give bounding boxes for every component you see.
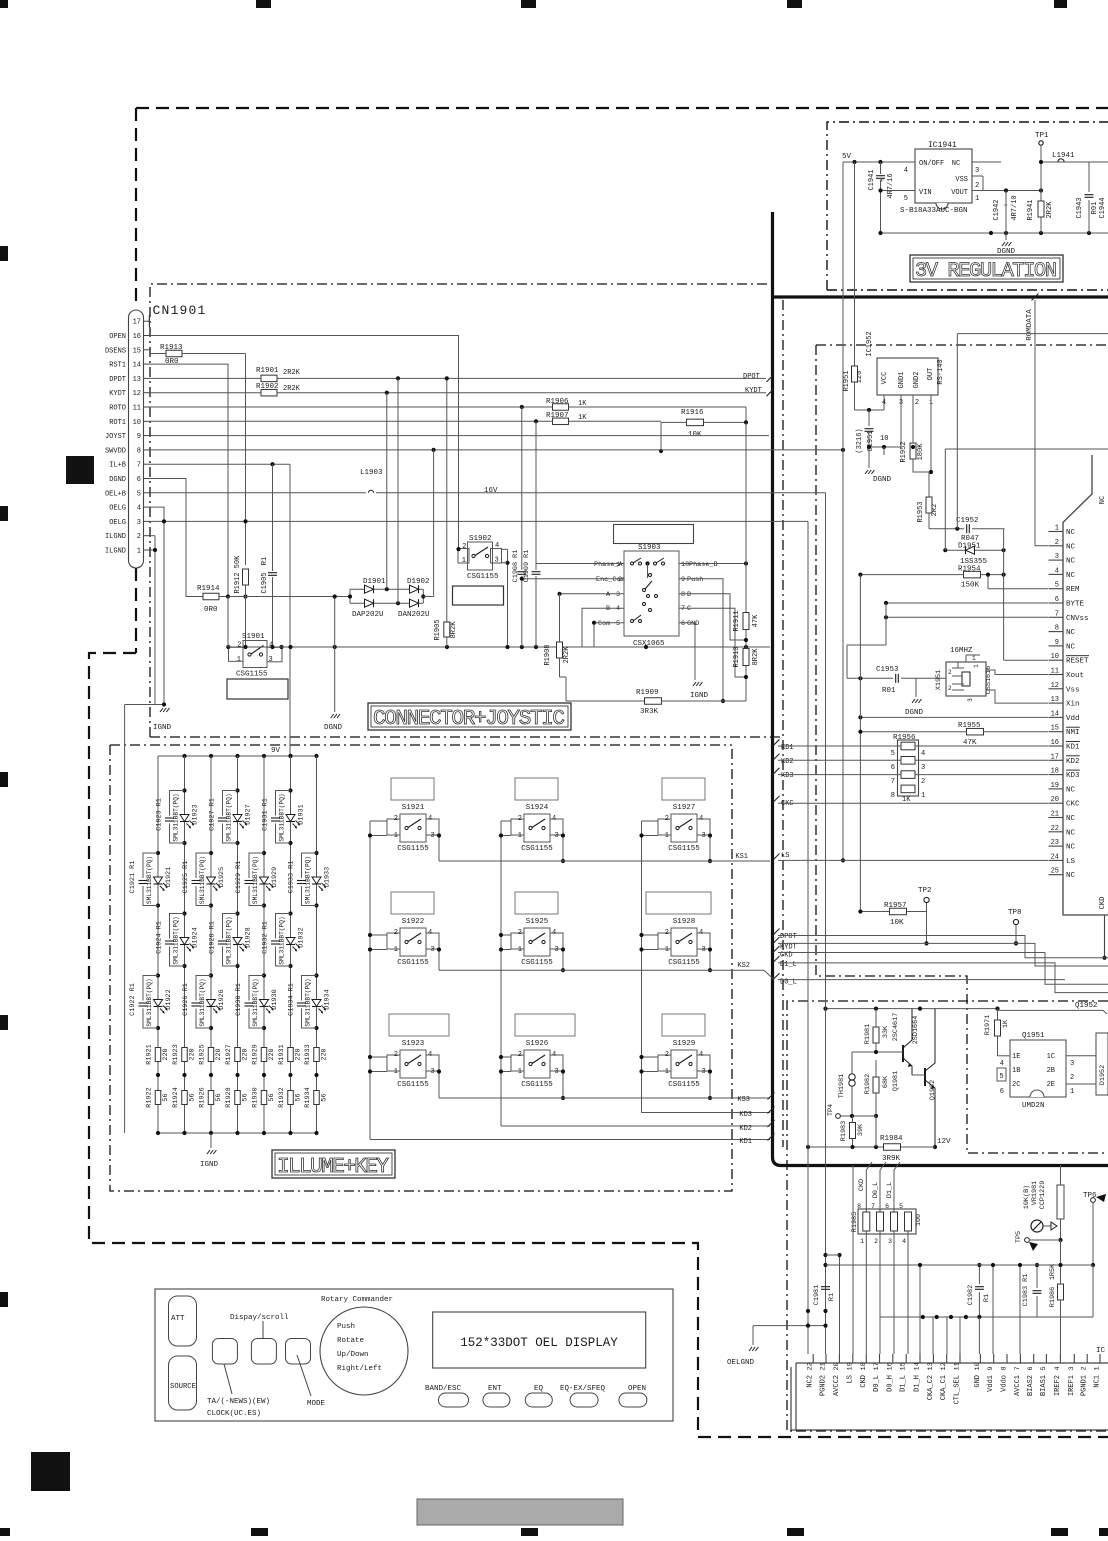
svg-text:2E: 2E xyxy=(1047,1081,1055,1089)
MCU pin 1 NC xyxy=(1049,525,1076,538)
button MODE small xyxy=(286,1339,311,1365)
wire BYTE xyxy=(884,601,1048,605)
svg-text:1: 1 xyxy=(462,557,466,565)
svg-text:1: 1 xyxy=(973,664,980,668)
svg-text:CSX1065: CSX1065 xyxy=(633,640,665,648)
CN1901 pin 15 DSENS xyxy=(105,347,150,355)
IC1952 remote receiver xyxy=(866,331,945,407)
svg-text:C1905: C1905 xyxy=(261,572,269,593)
svg-text:JOYST: JOYST xyxy=(105,433,126,441)
IC1941 regulator xyxy=(900,141,979,215)
svg-text:2B: 2B xyxy=(1047,1067,1055,1075)
svg-text:R1922: R1922 xyxy=(146,1087,154,1107)
svg-text:2: 2 xyxy=(665,815,669,823)
svg-text:R1951: R1951 xyxy=(843,370,851,391)
svg-text:Q1952: Q1952 xyxy=(1075,1002,1098,1010)
svg-text:D0_H: D0_H xyxy=(886,1375,894,1392)
svg-text:IC1952: IC1952 xyxy=(866,331,874,356)
CN1901 pin 13 DPDT xyxy=(109,376,150,384)
svg-text:IGND: IGND xyxy=(200,1161,219,1169)
button BAND/ESC xyxy=(425,1385,469,1407)
wire 5V feed down xyxy=(841,162,855,863)
svg-text:C1923 R1: C1923 R1 xyxy=(156,798,164,831)
svg-text:OPEN: OPEN xyxy=(109,333,126,341)
svg-text:5: 5 xyxy=(137,490,141,498)
svg-text:Up/Down: Up/Down xyxy=(337,1351,369,1359)
svg-text:11: 11 xyxy=(1051,668,1059,676)
svg-text:2: 2 xyxy=(394,1051,398,1059)
title CONNECTOR+JOYSTIC xyxy=(368,703,571,731)
svg-text:Push: Push xyxy=(337,1323,355,1331)
svg-text:D1924: D1924 xyxy=(192,927,200,947)
svg-text:2: 2 xyxy=(1070,1074,1074,1082)
svg-text:3: 3 xyxy=(1068,1366,1076,1370)
resistor R1916 xyxy=(659,407,748,453)
svg-text:R1984: R1984 xyxy=(880,1135,903,1143)
svg-text:SML311BBT(PQ): SML311BBT(PQ) xyxy=(146,978,153,1026)
svg-text:C1983 R1: C1983 R1 xyxy=(1022,1274,1030,1307)
switch S1929 xyxy=(658,1014,710,1089)
wire key matrix column buses xyxy=(370,821,642,1140)
capacitor C1953 xyxy=(847,666,946,695)
resistor R1908 xyxy=(544,594,571,677)
MCU pin 13 Xin xyxy=(1049,696,1080,709)
svg-text:R1916: R1916 xyxy=(681,409,704,417)
MCU pin 24 LS xyxy=(1049,853,1076,866)
svg-text:GND2: GND2 xyxy=(913,372,921,389)
svg-text:REM: REM xyxy=(1066,586,1080,594)
outer dashed boundary xyxy=(89,108,1108,1437)
svg-text:DGND: DGND xyxy=(905,709,924,717)
svg-text:D1923: D1923 xyxy=(192,804,200,824)
svg-text:21: 21 xyxy=(1051,811,1059,819)
LED D1932 with capacitor C1932 xyxy=(262,911,306,968)
svg-text:CSG1155: CSG1155 xyxy=(668,959,700,967)
svg-text:KD3: KD3 xyxy=(781,772,794,780)
svg-text:5: 5 xyxy=(899,1203,903,1210)
svg-text:R1901: R1901 xyxy=(256,367,279,375)
svg-text:3: 3 xyxy=(431,832,435,840)
front panel outline xyxy=(155,1289,673,1421)
svg-text:2R2K: 2R2K xyxy=(1046,201,1054,219)
svg-text:D1925: D1925 xyxy=(218,867,226,887)
svg-text:C: C xyxy=(687,605,691,613)
svg-text:3V REGULATION: 3V REGULATION xyxy=(915,260,1057,283)
connector CN1901 xyxy=(129,303,207,568)
MCU pin 23 NC xyxy=(1049,839,1076,852)
svg-text:10: 10 xyxy=(681,561,689,569)
svg-text:NC: NC xyxy=(1066,872,1076,880)
svg-text:ENT: ENT xyxy=(488,1385,502,1393)
OEL driver pin 18 CKD xyxy=(860,1354,868,1388)
svg-text:R1923: R1923 xyxy=(172,1044,180,1064)
resistor R1983 xyxy=(840,1116,865,1147)
wires S1921 xyxy=(368,821,441,861)
svg-text:Vss: Vss xyxy=(1066,686,1080,694)
svg-text:DPOT: DPOT xyxy=(743,373,760,381)
svg-text:OELG: OELG xyxy=(109,505,126,513)
resistor R1928 xyxy=(225,1073,250,1108)
OEL driver pin 17 D0_L xyxy=(873,1354,881,1392)
svg-text:C1908 R1: C1908 R1 xyxy=(512,550,520,583)
svg-text:Xout: Xout xyxy=(1066,672,1084,680)
wire CKD right section xyxy=(773,946,1108,984)
svg-text:1: 1 xyxy=(394,832,398,840)
svg-text:39K: 39K xyxy=(857,1123,865,1136)
svg-text:C1943: C1943 xyxy=(1076,197,1084,218)
CN1901 pin 1 ILGND xyxy=(105,548,150,556)
svg-text:S1922: S1922 xyxy=(402,918,425,926)
svg-text:C1952: C1952 xyxy=(956,517,979,525)
svg-text:DAP202U: DAP202U xyxy=(352,611,384,619)
svg-text:S1929: S1929 xyxy=(673,1040,696,1048)
svg-text:Q1982: Q1982 xyxy=(929,1080,937,1100)
svg-text:3: 3 xyxy=(888,1238,892,1245)
svg-text:SML311BBT(PQ): SML311BBT(PQ) xyxy=(199,856,206,904)
svg-text:4: 4 xyxy=(428,929,432,937)
svg-text:2: 2 xyxy=(665,929,669,937)
svg-text:NC: NC xyxy=(1066,629,1076,637)
LED D1927 with capacitor C1927 xyxy=(209,788,253,845)
svg-text:1: 1 xyxy=(137,548,141,556)
MCU pin 21 NC xyxy=(1049,811,1076,824)
svg-text:6: 6 xyxy=(137,476,141,484)
ground IGND joystick xyxy=(690,682,709,700)
MCU pin 17 KD2 xyxy=(1049,753,1080,766)
svg-text:3: 3 xyxy=(137,519,141,527)
svg-text:3: 3 xyxy=(555,946,559,954)
svg-text:C1928 R1: C1928 R1 xyxy=(209,921,217,954)
svg-text:R1928: R1928 xyxy=(225,1087,233,1107)
svg-text:6: 6 xyxy=(1055,596,1059,604)
svg-text:1: 1 xyxy=(921,792,925,800)
resistor R1954 xyxy=(858,529,1048,661)
svg-text:10: 10 xyxy=(1051,653,1059,661)
svg-text:C1941: C1941 xyxy=(868,169,876,190)
capacitor C1905 xyxy=(261,557,277,647)
svg-text:220: 220 xyxy=(295,1048,303,1060)
resistor R1929 xyxy=(252,1044,277,1064)
OEL driver pin 16 D0_H xyxy=(886,1354,894,1392)
resistor R1971 xyxy=(984,1009,1010,1056)
wire D1_L to R1985 xyxy=(885,1162,900,1212)
svg-text:R1924: R1924 xyxy=(172,1087,180,1107)
svg-text:R1933: R1933 xyxy=(304,1044,312,1064)
svg-text:ON/OFF: ON/OFF xyxy=(919,160,944,168)
svg-text:4R7/16: 4R7/16 xyxy=(887,173,895,198)
MCU pin 11 Xout xyxy=(1049,668,1085,681)
svg-text:4: 4 xyxy=(552,929,556,937)
svg-text:KD3: KD3 xyxy=(1066,772,1080,780)
svg-text:2: 2 xyxy=(915,399,919,407)
svg-text:10: 10 xyxy=(880,435,888,443)
svg-text:ROMDATA: ROMDATA xyxy=(1026,309,1034,341)
button OPEN xyxy=(619,1385,647,1407)
svg-text:OEL+B: OEL+B xyxy=(105,490,126,498)
CN1901 pin 11 ROTO xyxy=(109,405,150,413)
switch S1925 xyxy=(511,892,563,967)
LED D1925 with capacitor C1925 xyxy=(182,851,226,908)
microcontroller IC1951 body xyxy=(1063,455,1108,915)
svg-text:9: 9 xyxy=(1055,639,1059,647)
svg-text:SML311BBT(PQ): SML311BBT(PQ) xyxy=(252,978,259,1026)
svg-text:1K: 1K xyxy=(1002,1019,1010,1028)
svg-text:TH1981: TH1981 xyxy=(838,1074,846,1098)
svg-text:KD1: KD1 xyxy=(1066,744,1080,752)
svg-text:12: 12 xyxy=(133,390,141,398)
svg-text:EQ-EX/SFEQ: EQ-EX/SFEQ xyxy=(560,1385,606,1393)
LED D1922 with capacitor C1922 xyxy=(129,973,173,1030)
svg-text:4: 4 xyxy=(1054,1366,1062,1370)
svg-text:16: 16 xyxy=(1051,739,1059,747)
svg-text:D1_L: D1_L xyxy=(900,1375,908,1392)
ground IGND illume xyxy=(200,1133,219,1169)
resistor R1952 xyxy=(900,395,931,472)
svg-text:KD1: KD1 xyxy=(781,744,794,752)
wire SWVDD pin8 xyxy=(150,448,845,452)
mcu section border xyxy=(816,345,1108,1153)
wires S1923 xyxy=(368,1055,441,1098)
MCU pin 3 NC xyxy=(1049,553,1076,566)
svg-text:5V: 5V xyxy=(842,153,852,161)
svg-text:6: 6 xyxy=(891,764,895,772)
svg-text:C1922 R1: C1922 R1 xyxy=(129,983,137,1016)
svg-text:IL+B: IL+B xyxy=(109,462,126,470)
svg-text:Vddo: Vddo xyxy=(1001,1375,1009,1392)
LED D1924 with capacitor C1924 xyxy=(156,911,200,968)
svg-text:SML311BBT(PQ): SML311BBT(PQ) xyxy=(173,916,180,964)
resistor network R1985 xyxy=(851,1203,923,1245)
resistor R1914 xyxy=(197,585,248,614)
svg-text:KS1: KS1 xyxy=(735,853,748,861)
svg-text:2: 2 xyxy=(518,815,522,823)
svg-text:SML311BBT(PQ): SML311BBT(PQ) xyxy=(226,793,233,841)
wire KD2 left xyxy=(501,1120,775,1133)
svg-text:5: 5 xyxy=(1040,1366,1048,1370)
resistor R1932 xyxy=(278,1073,303,1108)
svg-text:R1981: R1981 xyxy=(864,1024,872,1044)
svg-text:Xin: Xin xyxy=(1066,701,1080,709)
OEL driver pin 1 NC1 xyxy=(1094,1354,1102,1388)
svg-text:2R2K: 2R2K xyxy=(563,646,571,664)
svg-text:R1953: R1953 xyxy=(917,501,925,522)
svg-text:3: 3 xyxy=(975,167,979,175)
svg-text:10K: 10K xyxy=(890,919,904,927)
svg-text:7: 7 xyxy=(681,605,685,613)
OEL driver pin 3 IREF1 xyxy=(1068,1354,1076,1396)
svg-text:LS: LS xyxy=(781,852,789,860)
svg-text:1C: 1C xyxy=(1047,1053,1055,1061)
svg-text:C1932 R1: C1932 R1 xyxy=(262,921,270,954)
wire C right xyxy=(679,608,746,677)
right section boundary dash line xyxy=(782,300,784,1147)
CN1901 pin 16 OPEN xyxy=(109,333,150,341)
resistor R1925 xyxy=(199,1044,224,1064)
svg-text:S1925: S1925 xyxy=(526,918,549,926)
transistor Q1982 xyxy=(912,1009,937,1150)
svg-text:C1931 R1: C1931 R1 xyxy=(262,798,270,831)
svg-text:2R2K: 2R2K xyxy=(283,385,301,393)
svg-text:2: 2 xyxy=(948,685,952,692)
button ATT xyxy=(169,1296,197,1346)
svg-text:NC: NC xyxy=(1099,496,1107,504)
svg-text:10K(B): 10K(B) xyxy=(1023,1185,1031,1209)
svg-text:NC: NC xyxy=(1066,786,1076,794)
svg-text:S1927: S1927 xyxy=(673,804,696,812)
svg-text:BIAS2: BIAS2 xyxy=(1027,1375,1035,1396)
capacitor C1951 xyxy=(856,395,901,462)
svg-text:1E: 1E xyxy=(1012,1053,1020,1061)
svg-text:D1932: D1932 xyxy=(298,927,306,947)
svg-text:IGND: IGND xyxy=(153,724,172,732)
svg-text:8: 8 xyxy=(1001,1366,1009,1370)
svg-text:MODE: MODE xyxy=(307,1400,326,1408)
svg-text:S-B18A33AUC-BGN: S-B18A33AUC-BGN xyxy=(900,207,968,215)
svg-text:D1952: D1952 xyxy=(1099,1065,1107,1085)
resistor R1955 xyxy=(858,722,1048,747)
svg-text:R1986: R1986 xyxy=(1049,1287,1057,1307)
svg-text:56: 56 xyxy=(162,1093,170,1101)
LED D1923 with capacitor C1923 xyxy=(156,788,200,845)
svg-text:AVCC2: AVCC2 xyxy=(833,1375,841,1396)
svg-text:D1929: D1929 xyxy=(271,867,279,887)
resistor R1905 xyxy=(434,619,458,647)
svg-text:SWVDD: SWVDD xyxy=(105,447,126,455)
resistor R1986 xyxy=(1049,1240,1064,1317)
svg-text:1: 1 xyxy=(972,655,976,662)
net label ROMDATA xyxy=(1026,294,1048,546)
CN1901 pin 17 xyxy=(133,315,150,327)
LED D1930 with capacitor C1930 xyxy=(235,973,279,1030)
svg-text:NC: NC xyxy=(1066,558,1076,566)
svg-text:CSG1155: CSG1155 xyxy=(397,959,429,967)
thick section divider vertical xyxy=(773,212,1108,1166)
transistor Q1952 wire xyxy=(998,1002,1108,1014)
svg-text:2C: 2C xyxy=(1012,1081,1020,1089)
svg-text:2: 2 xyxy=(1081,1366,1089,1370)
svg-text:Phase_B: Phase_B xyxy=(689,561,718,569)
wire Phase_A to C1909 xyxy=(536,563,624,565)
MCU pin 20 CKC xyxy=(1049,796,1081,809)
svg-text:Dispay/scroll: Dispay/scroll xyxy=(230,1314,289,1322)
OEL driver pin 7 AVCC1 xyxy=(1014,1354,1022,1396)
MCU pin 10 RESET xyxy=(1049,653,1090,666)
svg-text:1: 1 xyxy=(1055,525,1059,533)
wire IL+B pin7 xyxy=(150,462,290,756)
svg-text:ATT: ATT xyxy=(171,1315,185,1323)
svg-text:R1: R1 xyxy=(983,1294,991,1302)
svg-text:6: 6 xyxy=(1000,1088,1004,1096)
svg-text:OELG: OELG xyxy=(109,519,126,527)
svg-text:Push: Push xyxy=(687,576,703,584)
CN1901 pin 7 IL+B xyxy=(109,462,150,470)
svg-text:4: 4 xyxy=(902,1238,906,1245)
MCU pin 22 NC xyxy=(1049,825,1076,838)
svg-text:4: 4 xyxy=(699,1051,703,1059)
wires S1927 xyxy=(639,821,712,863)
svg-text:25: 25 xyxy=(1051,868,1059,876)
svg-text:3R9K: 3R9K xyxy=(882,1155,901,1163)
wire 9V rail xyxy=(158,747,319,758)
svg-text:16: 16 xyxy=(886,1362,894,1370)
OEL driver pin 11 CTL_SEL xyxy=(954,1354,962,1404)
wire Xout xyxy=(986,670,1048,675)
svg-text:C1927 R1: C1927 R1 xyxy=(209,798,217,831)
svg-text:1: 1 xyxy=(518,832,522,840)
svg-text:R1910: R1910 xyxy=(733,646,741,667)
MCU pin 7 CNVss xyxy=(1049,610,1089,623)
svg-text:GND1: GND1 xyxy=(898,372,906,389)
OEL driver pin 2 PGND1 xyxy=(1081,1354,1089,1396)
resistor R1930 xyxy=(252,1073,277,1108)
svg-text:2: 2 xyxy=(137,533,141,541)
svg-text:15: 15 xyxy=(1051,725,1059,733)
svg-text:4: 4 xyxy=(1055,567,1059,575)
resistor R1924 xyxy=(172,1073,197,1108)
wire A to R1908 xyxy=(557,592,624,596)
svg-text:3: 3 xyxy=(431,1068,435,1076)
svg-text:1: 1 xyxy=(237,656,241,664)
svg-text:2R2K: 2R2K xyxy=(283,369,301,377)
svg-text:LS: LS xyxy=(846,1375,854,1383)
svg-text:8: 8 xyxy=(1055,625,1059,633)
resistor R1982 xyxy=(864,1060,890,1118)
svg-text:R1931: R1931 xyxy=(278,1044,286,1064)
svg-text:C1934 R1: C1934 R1 xyxy=(288,983,296,1016)
svg-text:Vdd1: Vdd1 xyxy=(987,1375,995,1392)
svg-text:CSG1155: CSG1155 xyxy=(521,845,553,853)
svg-text:C1925 R1: C1925 R1 xyxy=(182,861,190,894)
wire REM xyxy=(945,449,1108,589)
svg-text:R1911: R1911 xyxy=(733,610,741,631)
svg-text:PGND2: PGND2 xyxy=(820,1375,828,1396)
MCU pin 18 KD3 xyxy=(1049,768,1081,781)
svg-text:3: 3 xyxy=(921,764,925,772)
wire KS1 row xyxy=(439,860,770,862)
svg-text:3: 3 xyxy=(555,832,559,840)
svg-text:C1953: C1953 xyxy=(876,666,899,674)
svg-text:14: 14 xyxy=(914,1362,922,1370)
wire ILGND pins 1-2 xyxy=(125,536,164,1133)
button ENT xyxy=(483,1385,510,1407)
OEL driver pin 4 IREF2 xyxy=(1054,1354,1062,1396)
svg-text:SML311BBT(PQ): SML311BBT(PQ) xyxy=(279,916,286,964)
svg-text:C1982: C1982 xyxy=(967,1285,975,1305)
resistor R1913 xyxy=(150,344,246,565)
svg-text:BIAS1: BIAS1 xyxy=(1040,1375,1048,1396)
svg-text:4: 4 xyxy=(699,929,703,937)
svg-text:X1951: X1951 xyxy=(935,670,943,690)
connector section border xyxy=(150,284,783,737)
wire LED matrix bottom bus xyxy=(156,1131,319,1135)
svg-text:2SD1664: 2SD1664 xyxy=(912,1016,920,1045)
svg-text:PGND1: PGND1 xyxy=(1081,1375,1089,1396)
capacitor C1908 xyxy=(512,407,526,647)
svg-text:4: 4 xyxy=(137,505,141,513)
MCU pin 8 NC xyxy=(1049,625,1076,638)
svg-text:KS3: KS3 xyxy=(737,1096,750,1104)
svg-text:DPDT: DPDT xyxy=(109,376,126,384)
OEL driver pin 20 AVCC2 xyxy=(833,1354,841,1396)
svg-text:1: 1 xyxy=(616,561,620,569)
svg-text:CSG1155: CSG1155 xyxy=(521,959,553,967)
svg-text:1: 1 xyxy=(975,195,979,203)
wire KS3 row xyxy=(439,1093,775,1105)
svg-text:TP5: TP5 xyxy=(1015,1231,1023,1243)
svg-text:C1944: C1944 xyxy=(1099,197,1107,218)
svg-text:R01: R01 xyxy=(882,687,896,695)
svg-text:DAN202U: DAN202U xyxy=(398,611,430,619)
